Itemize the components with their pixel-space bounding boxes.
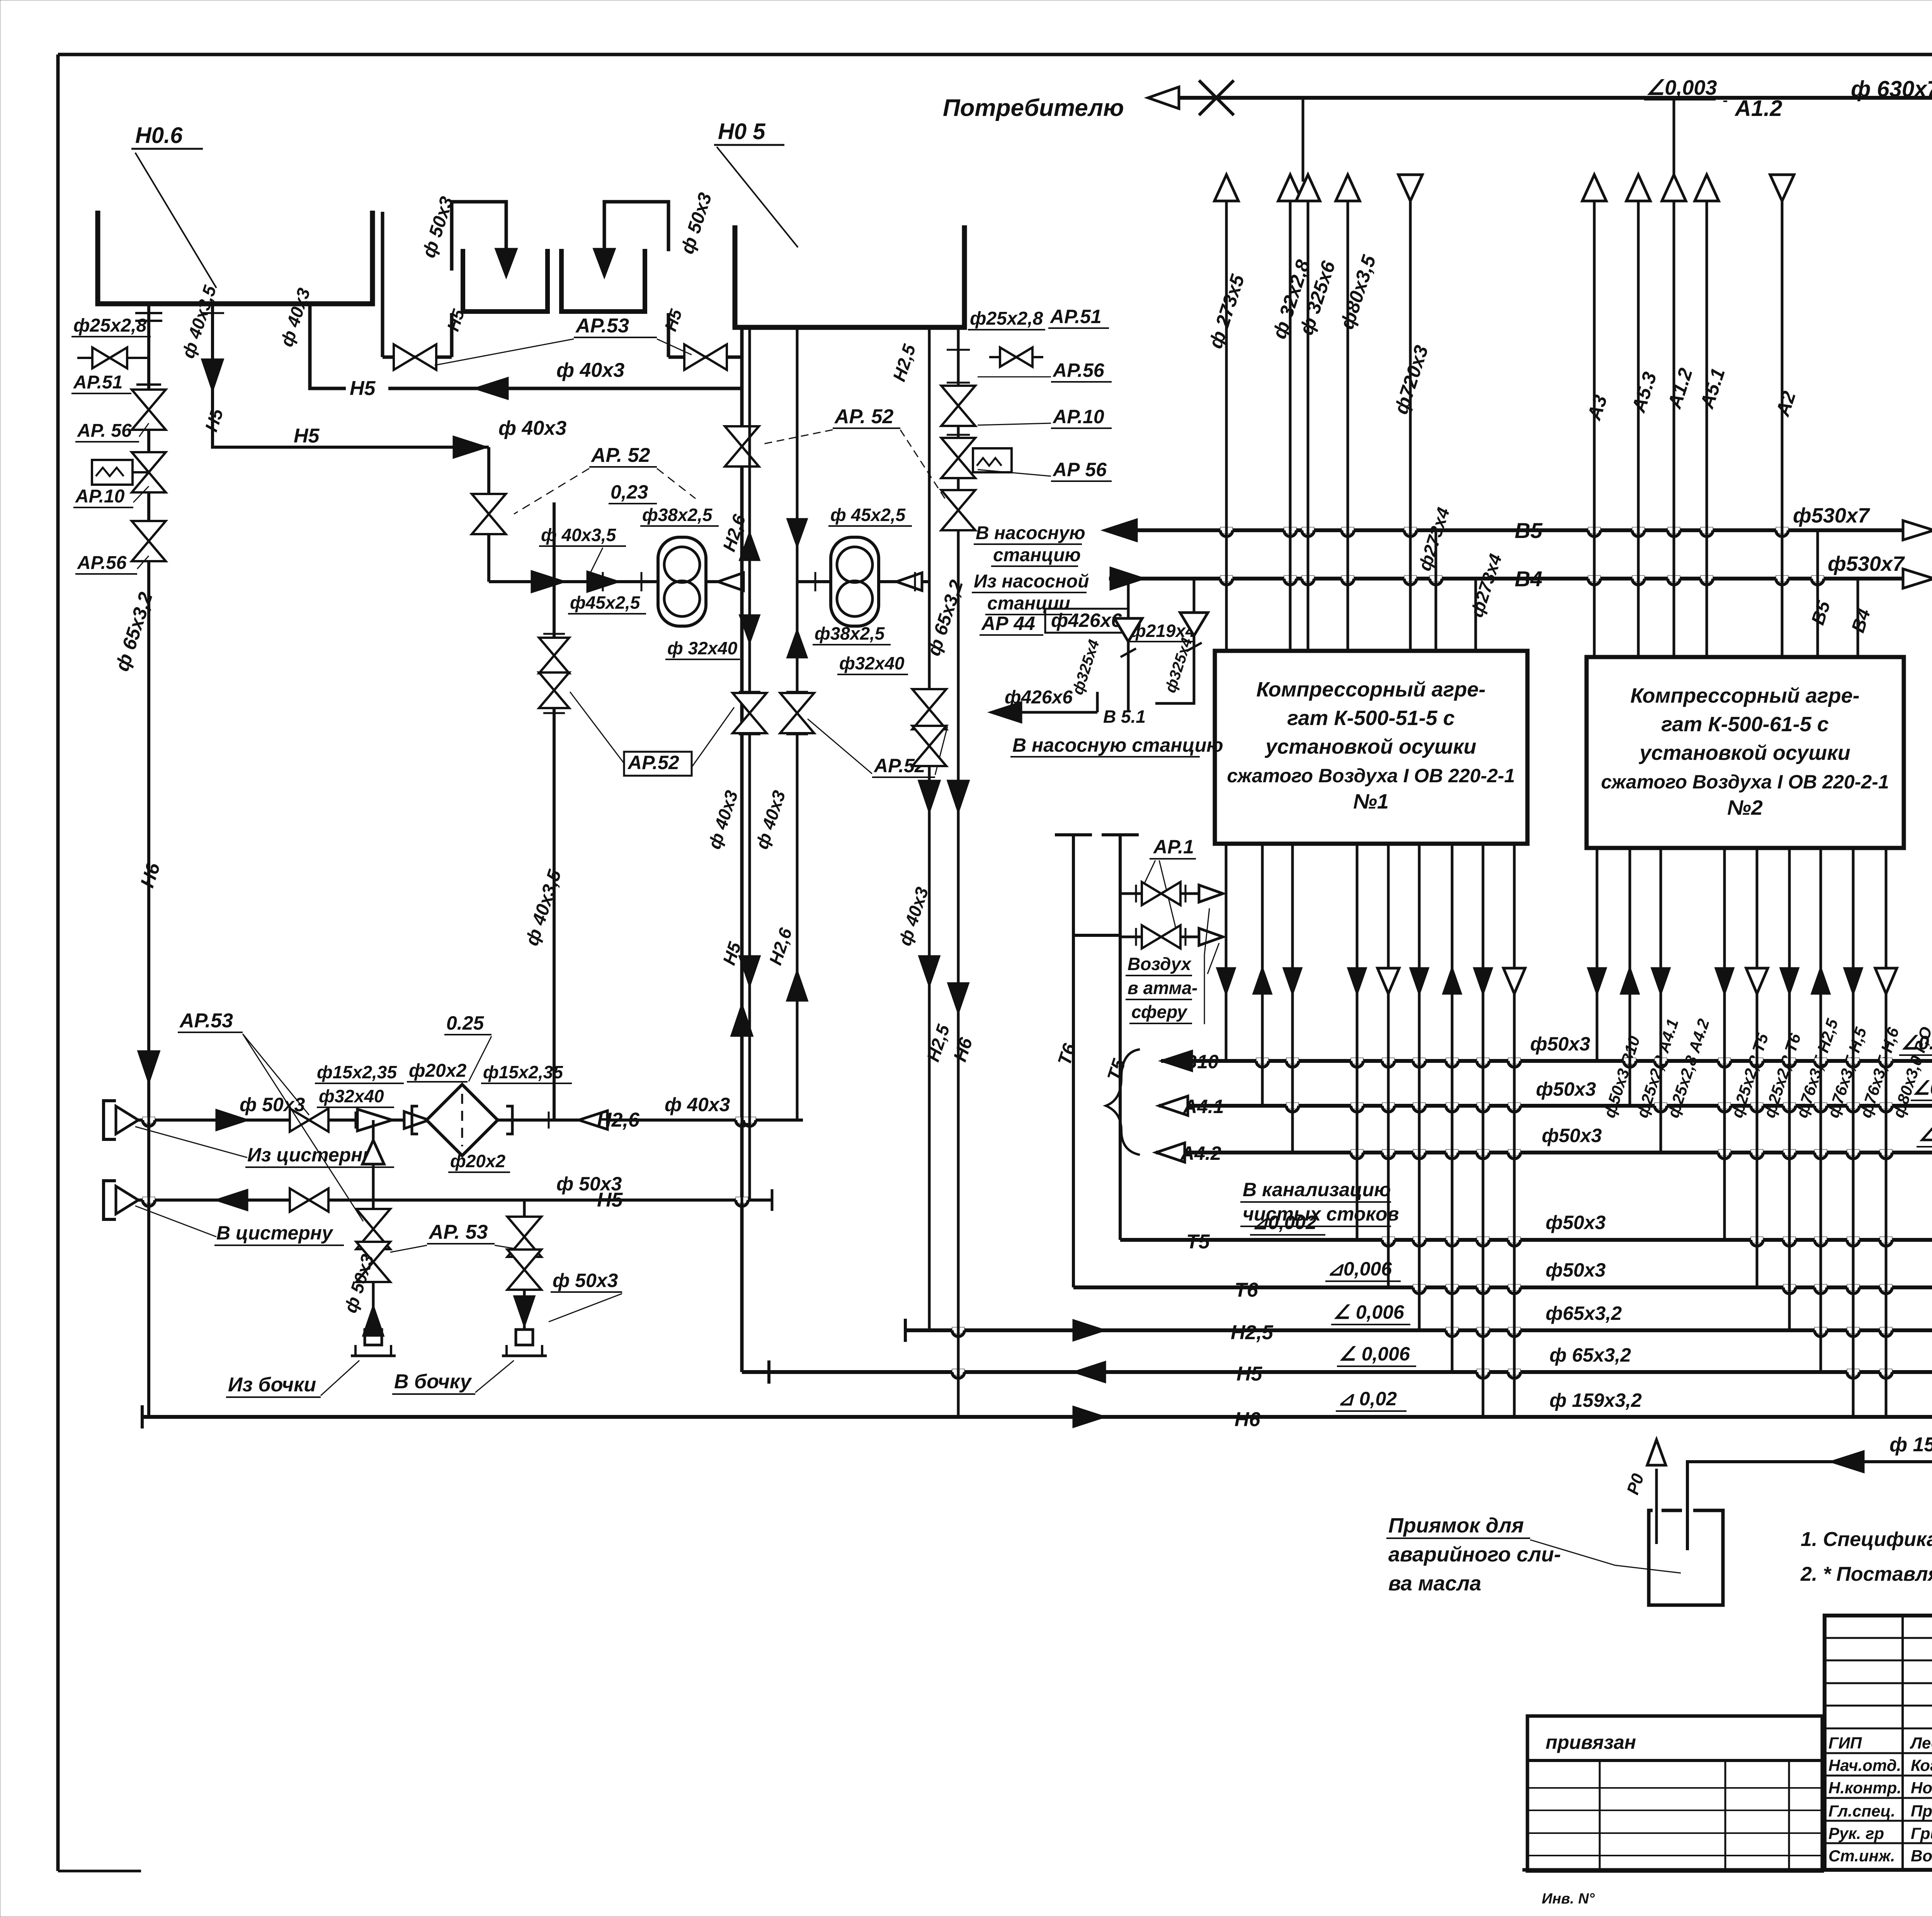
pump assembly line 1 y=1505 bbox=[489, 580, 742, 583]
svg-text:станцию: станцию bbox=[993, 545, 1081, 565]
svg-text:ф426х6: ф426х6 bbox=[1005, 687, 1073, 708]
svg-text:∠ 0,006: ∠ 0,006 bbox=[1333, 1301, 1405, 1323]
svg-text:Н.контр.: Н.контр. bbox=[1828, 1779, 1901, 1797]
valve AP56 on pipe385 bbox=[132, 390, 166, 410]
T6-T5 connector bbox=[1073, 934, 1120, 937]
pipe from box1 outlet 2 bbox=[1261, 844, 1264, 1106]
arrow down 2480 b bbox=[948, 983, 968, 1013]
svg-text:⊿0,006: ⊿0,006 bbox=[1327, 1258, 1392, 1280]
vertical x=1265 down from H5 line bbox=[487, 447, 490, 582]
svg-text:ф 50х3: ф 50х3 bbox=[553, 1270, 618, 1291]
svg-text:ф50х3: ф50х3 bbox=[1542, 1125, 1602, 1146]
svg-text:ф50х3: ф50х3 bbox=[1546, 1212, 1606, 1233]
drop from B4 x=3819 bbox=[1475, 579, 1477, 651]
svg-text:ф25х2,8: ф25х2,8 bbox=[73, 315, 147, 336]
arrow down on pipe385 bbox=[138, 1051, 159, 1082]
svg-text:ва масла: ва масла bbox=[1388, 1572, 1481, 1595]
svg-text:Н2,5: Н2,5 bbox=[1231, 1321, 1274, 1344]
AP53 valve right bbox=[668, 356, 742, 359]
svg-text:ф530х7: ф530х7 bbox=[1793, 504, 1871, 527]
pipe from box2 outlet 6 bbox=[1788, 848, 1791, 1330]
svg-text:аварийного сли-: аварийного сли- bbox=[1388, 1543, 1561, 1566]
arrow down bbox=[202, 359, 223, 390]
svg-text:∠0.006: ∠0.006 bbox=[1901, 1032, 1932, 1054]
svg-text:В канализацию: В канализацию bbox=[1243, 1179, 1391, 1200]
arrow left on 3105 bbox=[216, 1190, 247, 1210]
svg-text:Н5: Н5 bbox=[350, 377, 376, 400]
svg-text:установкой осушки: установкой осушки bbox=[1638, 741, 1850, 764]
svg-text:гат К-500-61-5 с: гат К-500-61-5 с bbox=[1661, 713, 1829, 736]
filter diamond bbox=[427, 1084, 498, 1156]
svg-text:ф20х2: ф20х2 bbox=[450, 1151, 505, 1171]
svg-text:В насосную станцию: В насосную станцию bbox=[1012, 734, 1223, 756]
svg-text:1. Спецификацию оборудования: 1. Спецификацию оборудования и арматуры … bbox=[1801, 1528, 1932, 1551]
svg-text:Н6: Н6 bbox=[1235, 1408, 1261, 1431]
svg-text:АР.52: АР.52 bbox=[627, 752, 679, 773]
valve on 3105 bbox=[290, 1188, 309, 1212]
svg-text:ф32х40: ф32х40 bbox=[839, 653, 905, 673]
svg-text:ф32х40: ф32х40 bbox=[319, 1086, 384, 1106]
valves on 2480 bbox=[941, 386, 975, 406]
riser pipe x=3174 bbox=[1214, 175, 1238, 201]
svg-text:В бочку: В бочку bbox=[394, 1371, 473, 1393]
svg-text:Из насосной: Из насосной bbox=[974, 571, 1089, 592]
header Н6 bbox=[142, 1415, 1932, 1419]
svg-text:Т5: Т5 bbox=[1186, 1231, 1210, 1253]
svg-text:ф38х2,5: ф38х2,5 bbox=[642, 505, 713, 525]
H5 line upper y=1005 bbox=[310, 304, 346, 388]
svg-text:ф 40х3: ф 40х3 bbox=[498, 417, 566, 439]
drop from B5 x=3716 bbox=[1435, 530, 1437, 651]
svg-text:Григорьян: Григорьян bbox=[1911, 1824, 1932, 1842]
svg-text:ф 40х3: ф 40х3 bbox=[665, 1094, 730, 1115]
svg-text:АР. 53: АР. 53 bbox=[428, 1221, 488, 1243]
line Из цистерны y=2898 bbox=[138, 1119, 803, 1122]
svg-text:А1.2: А1.2 bbox=[1734, 96, 1782, 121]
svg-text:∠0.006: ∠0.006 bbox=[1913, 1077, 1932, 1099]
small tank B inlet hook bbox=[452, 202, 506, 271]
pipe crossing jump arcs bbox=[1220, 527, 1233, 533]
pipe from box1 outlet 6 bbox=[1418, 844, 1421, 1330]
valve AP51 horizontal at 2480 bbox=[989, 356, 1043, 358]
arrow up 2063 low bbox=[787, 971, 807, 1001]
vertical x=1434 bbox=[553, 502, 556, 1120]
pipe from box2 outlet 2 bbox=[1629, 848, 1631, 1106]
pipe from box1 outlet 3 bbox=[1291, 844, 1294, 1153]
svg-text:АР.53: АР.53 bbox=[575, 315, 629, 337]
svg-text:Нач.отд.: Нач.отд. bbox=[1828, 1756, 1901, 1774]
svg-text:ф50х3: ф50х3 bbox=[1536, 1078, 1596, 1100]
svg-text:ф45х2,5: ф45х2,5 bbox=[570, 592, 641, 613]
header B5 bbox=[1121, 528, 1932, 532]
arrow down 1940 low bbox=[740, 956, 760, 986]
svg-text:ф426х6: ф426х6 bbox=[1051, 609, 1122, 631]
fitting stand В бочку bbox=[516, 1330, 533, 1345]
riser pipe x=4417 bbox=[1695, 175, 1719, 201]
vertical T6 from T-top bbox=[1055, 833, 1092, 836]
valve on 1920 bbox=[725, 426, 759, 446]
header B4 bbox=[1109, 577, 1932, 581]
svg-text:Гл.спец.: Гл.спец. bbox=[1828, 1802, 1895, 1820]
svg-text:Н5: Н5 bbox=[597, 1189, 623, 1211]
narrow rows top-left bbox=[1825, 1637, 1932, 1639]
drop from B5 x=4704 bbox=[1816, 530, 1819, 657]
riser pipe x=3488 bbox=[1336, 175, 1360, 201]
valve on 1265 bbox=[472, 494, 506, 514]
svg-text:Приямок для: Приямок для bbox=[1388, 1514, 1524, 1537]
arrow up 2063b bbox=[787, 630, 807, 657]
wall x=990 bbox=[381, 212, 384, 357]
svg-text:ф65х3,2: ф65х3,2 bbox=[1546, 1302, 1622, 1324]
svg-text:№2: №2 bbox=[1727, 796, 1763, 819]
svg-text:Н0.6: Н0.6 bbox=[135, 123, 183, 148]
svg-text:Коган: Коган bbox=[1911, 1756, 1932, 1774]
svg-text:ф 40х3: ф 40х3 bbox=[556, 359, 624, 381]
svg-text:В5: В5 bbox=[1515, 518, 1543, 543]
pipe from box2 outlet 5 bbox=[1756, 848, 1759, 1287]
AP51 branch valve bbox=[77, 357, 149, 359]
arrow B4 from pump station bbox=[1111, 568, 1144, 589]
fitting Из цистерны bbox=[104, 1101, 116, 1139]
svg-text:∠ 0,006: ∠ 0,006 bbox=[1339, 1343, 1410, 1365]
valve on 2898 bbox=[290, 1108, 309, 1132]
svg-text:АР 56: АР 56 bbox=[1052, 459, 1107, 480]
pryamok tank bbox=[1649, 1510, 1723, 1605]
svg-text:Ст.инж.: Ст.инж. bbox=[1828, 1847, 1895, 1865]
svg-text:сжатого Воздуха I ОВ 220-2-1: сжатого Воздуха I ОВ 220-2-1 bbox=[1601, 771, 1889, 793]
riser pipe x=3339 bbox=[1278, 175, 1302, 201]
svg-text:ГИП: ГИП bbox=[1828, 1734, 1862, 1752]
svg-text:Преснов: Преснов bbox=[1911, 1802, 1932, 1820]
riser pipe x=4126 bbox=[1582, 175, 1606, 201]
svg-text:АР.10: АР.10 bbox=[1052, 406, 1104, 427]
pipe from box1 outlet 7 bbox=[1451, 844, 1454, 1372]
arrow down 2405 bbox=[919, 781, 940, 812]
privyazan table lines bbox=[1527, 1787, 1822, 1789]
arrow down 1357 bbox=[514, 1296, 534, 1326]
arrow down 2480 bbox=[948, 781, 969, 812]
branch В бочку x=1357 bbox=[523, 1200, 526, 1330]
svg-text:АР. 52: АР. 52 bbox=[834, 405, 894, 428]
svg-text:АР.56: АР.56 bbox=[77, 553, 127, 573]
svg-text:⊿ 0,02: ⊿ 0,02 bbox=[1338, 1388, 1397, 1410]
svg-text:ф20х2: ф20х2 bbox=[409, 1061, 467, 1081]
Т5 bracket curly bbox=[1106, 1049, 1140, 1155]
АР.1 valves row2 bbox=[1120, 936, 1217, 938]
pipe from box1 outlet 9 bbox=[1513, 844, 1516, 1417]
svg-text:В насосную: В насосную bbox=[976, 523, 1085, 543]
header B10 bbox=[1161, 1059, 1932, 1063]
svg-text:ф50х3: ф50х3 bbox=[1546, 1259, 1606, 1281]
svg-text:0,23: 0,23 bbox=[611, 481, 648, 503]
svg-text:ф530х7: ф530х7 bbox=[1828, 552, 1905, 575]
svg-text:ф50х3: ф50х3 bbox=[1530, 1033, 1590, 1055]
svg-text:Рук. гр: Рук. гр bbox=[1828, 1824, 1884, 1842]
arrow up 1940 bbox=[740, 533, 759, 560]
vertical x=2480 (H6/ф65х3,2) bbox=[957, 327, 960, 1417]
svg-text:Инв. N°: Инв. N° bbox=[1542, 1891, 1595, 1907]
pipe x=550 from tank A bbox=[211, 304, 214, 443]
pipe from box2 outlet 4 bbox=[1723, 848, 1726, 1240]
arrow down 1940 bbox=[740, 615, 759, 642]
svg-text:0.25: 0.25 bbox=[446, 1012, 485, 1034]
oval pump 1 bbox=[658, 537, 706, 626]
pipe A1.2 to consumer bbox=[1155, 96, 1932, 100]
small tank B bbox=[463, 249, 548, 312]
svg-text:∠ 0.006: ∠ 0.006 bbox=[1918, 1124, 1932, 1145]
recorder box bbox=[973, 448, 1012, 472]
svg-text:ф 630х7: ф 630х7 bbox=[1851, 77, 1932, 102]
riser pipe x=3385 bbox=[1296, 175, 1320, 201]
svg-text:№1: №1 bbox=[1353, 790, 1389, 813]
drop from B4 x=4808 bbox=[1857, 579, 1859, 657]
svg-text:Воздух: Воздух bbox=[1128, 954, 1192, 974]
drop from A1.2 at x=4332 bbox=[1673, 98, 1675, 179]
svg-text:А4.1: А4.1 bbox=[1182, 1096, 1224, 1117]
svg-text:Воеводина: Воеводина bbox=[1911, 1847, 1932, 1865]
open up arrow bbox=[362, 1140, 384, 1164]
svg-text:∠0,003: ∠0,003 bbox=[1646, 76, 1717, 99]
verticals 1940/2063 from tank2 bbox=[748, 327, 751, 1200]
header А4.2 bbox=[1156, 1151, 1932, 1154]
svg-text:ф 40х3,5: ф 40х3,5 bbox=[541, 525, 617, 545]
arrow into tank C bbox=[594, 249, 615, 277]
svg-text:АР. 52: АР. 52 bbox=[590, 444, 650, 466]
check valve drop 2 bbox=[1155, 579, 1194, 703]
svg-text:Потребителю: Потребителю bbox=[943, 95, 1124, 121]
valve AP10 on pipe385 bbox=[132, 452, 166, 472]
svg-text:Н0 5: Н0 5 bbox=[718, 119, 765, 144]
svg-text:Компрессорный агре-: Компрессорный агре- bbox=[1256, 678, 1485, 701]
check arrow line1 bbox=[718, 573, 743, 591]
title block columns bbox=[1901, 1616, 1904, 1870]
pipe from box2 outlet 9 bbox=[1885, 848, 1888, 1417]
vertical x=2405 (H2.5) bbox=[928, 327, 931, 1330]
check valve drop 1 bbox=[1127, 579, 1130, 712]
H5 line lower y=1145 bbox=[213, 443, 489, 447]
svg-text:В4: В4 bbox=[1515, 567, 1543, 591]
svg-text:АР.51: АР.51 bbox=[1049, 306, 1102, 327]
title block outer bbox=[1825, 1616, 1932, 1870]
closed valve X symbol bbox=[1199, 80, 1234, 115]
svg-text:Н2,6: Н2,6 bbox=[597, 1109, 640, 1131]
svg-text:Новицкая: Новицкая bbox=[1911, 1779, 1932, 1797]
tank A (H0.6) bbox=[98, 211, 372, 304]
svg-text:АР 44: АР 44 bbox=[981, 613, 1035, 634]
svg-text:привязан: привязан bbox=[1546, 1731, 1636, 1753]
arrow to consumer bbox=[1148, 87, 1179, 109]
pipe from box2 outlet 1 bbox=[1596, 848, 1599, 1061]
arrow right on pump line bbox=[587, 572, 618, 592]
svg-text:⊿0,002: ⊿0,002 bbox=[1252, 1212, 1316, 1233]
riser pipe x=4612 bbox=[1781, 175, 1784, 657]
pump assembly line 2 y=1505 bbox=[797, 580, 929, 583]
svg-text:А4.2: А4.2 bbox=[1180, 1142, 1221, 1164]
svg-text:Н5: Н5 bbox=[294, 425, 320, 447]
fitting В цистерну bbox=[104, 1181, 116, 1219]
svg-text:Компрессорный агре-: Компрессорный агре- bbox=[1630, 684, 1859, 707]
check arrow H2.6 bbox=[579, 1111, 607, 1129]
signature rows bbox=[1825, 1752, 1932, 1754]
svg-text:АР.1: АР.1 bbox=[1153, 836, 1194, 858]
svg-text:ф 159х3,2: ф 159х3,2 bbox=[1549, 1389, 1642, 1411]
sheet border frame bbox=[58, 53, 1932, 56]
vertical T5 from T-top bbox=[1102, 833, 1139, 836]
pryamok branch line bbox=[1687, 1417, 1932, 1550]
arrow up 966 bbox=[363, 1306, 383, 1336]
valve AP56b on pipe385 bbox=[132, 521, 166, 541]
arrow on line1 bbox=[532, 571, 564, 592]
branch Из бочки x=966 bbox=[372, 1120, 375, 1330]
svg-text:В 5.1: В 5.1 bbox=[1103, 707, 1146, 727]
svg-text:ф 65х3,2: ф 65х3,2 bbox=[1549, 1344, 1631, 1366]
drop from A1.2 at x=3372 bbox=[1302, 98, 1304, 182]
privyazan box bbox=[1527, 1716, 1822, 1871]
long vertical x=1920 bbox=[740, 327, 744, 1372]
svg-text:АР.53: АР.53 bbox=[179, 1010, 233, 1032]
svg-text:Т6: Т6 bbox=[1235, 1279, 1259, 1301]
riser pipe x=4240 bbox=[1626, 175, 1650, 201]
arrow B5 to pump station bbox=[1104, 519, 1137, 541]
pipe from box1 outlet 5 bbox=[1387, 844, 1390, 1287]
header Т6 bbox=[1073, 1285, 1932, 1289]
PO open arrow bbox=[1647, 1440, 1666, 1465]
svg-text:установкой осушки: установкой осушки bbox=[1264, 735, 1476, 758]
svg-text:2. * Поставляется с оборуд: 2. * Поставляется с оборудованием. bbox=[1800, 1563, 1932, 1585]
svg-text:гат К-500-51-5 с: гат К-500-51-5 с bbox=[1287, 707, 1455, 730]
line В цистерну y=3105 bbox=[138, 1199, 772, 1202]
pipe from box1 outlet 8 bbox=[1482, 844, 1485, 1417]
arrow down 2405 b bbox=[919, 956, 939, 986]
svg-text:в атма-: в атма- bbox=[1128, 978, 1197, 998]
svg-text:Н5: Н5 bbox=[1236, 1363, 1263, 1385]
valve on 1940 bbox=[733, 693, 767, 713]
header Т5 bbox=[1120, 1238, 1932, 1242]
compressor unit box N2 bbox=[1587, 657, 1904, 848]
pipe from box1 outlet 4 bbox=[1356, 844, 1359, 1240]
pipe from box2 outlet 3 bbox=[1660, 848, 1662, 1153]
svg-text:ф 159х3,2: ф 159х3,2 bbox=[1889, 1433, 1932, 1456]
pipe from box2 outlet 7 bbox=[1820, 848, 1822, 1372]
tank 2 (H0 5) bbox=[735, 225, 964, 327]
arrow up on 1920 bbox=[731, 1005, 752, 1036]
arrow left on branch bbox=[1831, 1451, 1864, 1472]
pipe from box1 outlet 1 bbox=[1225, 844, 1228, 1061]
svg-text:Леонов: Леонов bbox=[1910, 1734, 1932, 1752]
svg-text:ф15х2,35: ф15х2,35 bbox=[483, 1062, 563, 1082]
svg-text:В10: В10 bbox=[1183, 1051, 1219, 1073]
check arrow line2 bbox=[896, 573, 922, 591]
flange marks top bbox=[135, 312, 162, 314]
small tank C bbox=[561, 249, 645, 312]
arrow into tank B bbox=[496, 249, 517, 277]
B5.1 line bbox=[994, 711, 1097, 714]
svg-text:АР.51: АР.51 bbox=[73, 372, 122, 393]
pressure regulator AP10 box bbox=[92, 460, 133, 485]
svg-text:АР.10: АР.10 bbox=[75, 486, 125, 507]
svg-text:Из цистерны: Из цистерны bbox=[247, 1144, 379, 1166]
svg-text:ф25х2,8: ф25х2,8 bbox=[970, 308, 1043, 329]
arrow right bbox=[216, 1110, 247, 1130]
fitting stand Из бочки bbox=[365, 1330, 382, 1345]
header А4.1 bbox=[1159, 1104, 1932, 1108]
valves on 1357 bbox=[507, 1217, 541, 1237]
svg-text:ф 32х40: ф 32х40 bbox=[667, 638, 738, 658]
svg-text:сферу: сферу bbox=[1131, 1002, 1188, 1022]
PO riser bbox=[1655, 1469, 1658, 1544]
arrow В5.1 left bbox=[990, 702, 1021, 722]
valve on 2063 bbox=[780, 693, 814, 713]
svg-text:Из бочки: Из бочки bbox=[228, 1374, 316, 1396]
svg-text:АР. 56: АР. 56 bbox=[77, 421, 132, 441]
riser pipe x=4332 bbox=[1662, 175, 1686, 201]
oval pump 2 bbox=[831, 537, 879, 626]
valve pair on 2405 bbox=[912, 689, 946, 709]
pipe from box2 outlet 8 bbox=[1852, 848, 1855, 1417]
small tank C inlet hook bbox=[604, 202, 668, 251]
check valve bbox=[357, 1109, 392, 1131]
svg-text:ф 45х2,5: ф 45х2,5 bbox=[830, 505, 906, 525]
compressor unit box N1 bbox=[1215, 651, 1527, 844]
valves on 966 bbox=[356, 1209, 390, 1229]
svg-text:АР.56: АР.56 bbox=[1052, 359, 1105, 381]
svg-text:ф15х2,35: ф15х2,35 bbox=[317, 1062, 397, 1082]
small arrow bbox=[404, 1112, 429, 1129]
svg-text:В цистерну: В цистерну bbox=[216, 1222, 333, 1244]
valve pair on 1434 bbox=[539, 638, 569, 655]
svg-text:сжатого Воздуха I ОВ 220-2-1: сжатого Воздуха I ОВ 220-2-1 bbox=[1227, 765, 1515, 787]
header Н2.5 bbox=[905, 1328, 1932, 1332]
АР.1 valves row1 bbox=[1120, 892, 1217, 895]
svg-text:ф38х2,5: ф38х2,5 bbox=[815, 623, 885, 644]
AP53 valve left bbox=[383, 356, 452, 359]
header Н5 bbox=[742, 1370, 1932, 1374]
arrow down 2063 bbox=[787, 519, 807, 546]
main left vertical pipe x=385 (H6) bbox=[147, 304, 150, 1417]
riser pipe x=3650 bbox=[1409, 175, 1412, 651]
